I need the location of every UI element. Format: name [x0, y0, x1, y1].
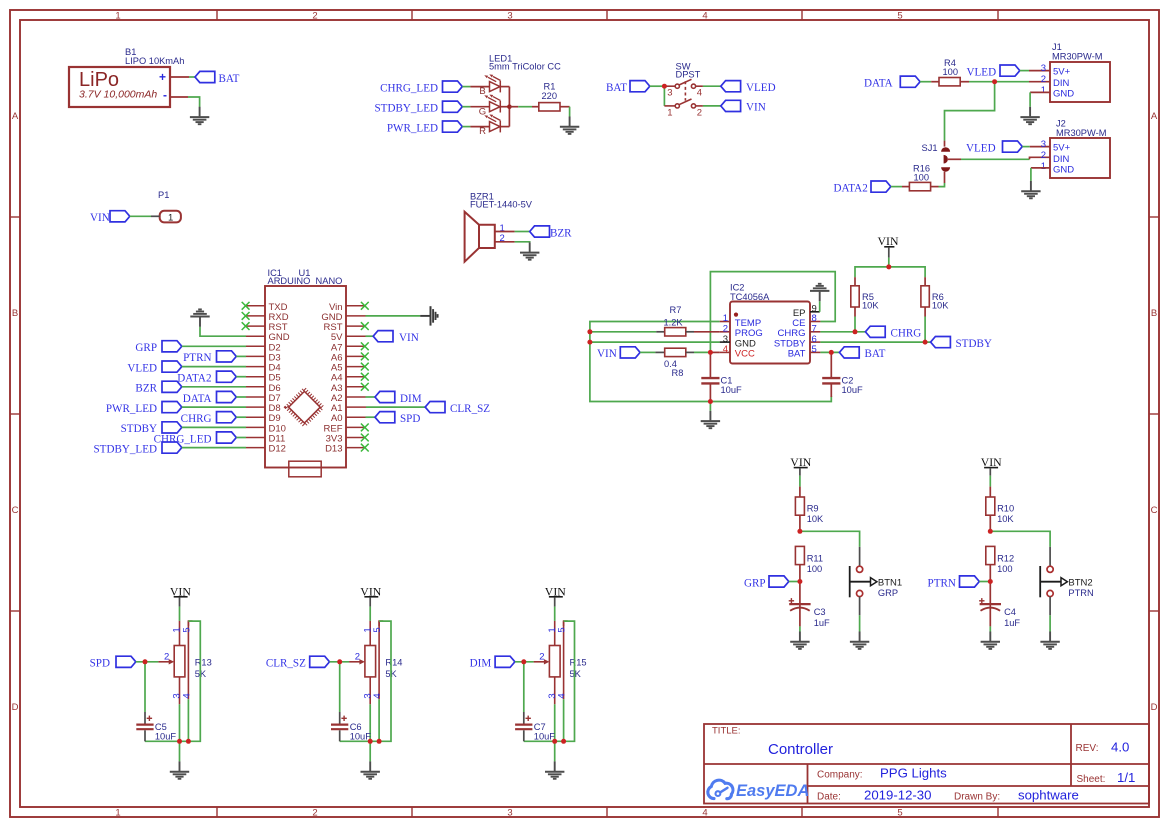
svg-text:5V+: 5V+ — [1053, 67, 1071, 78]
svg-text:5mm TriColor CC: 5mm TriColor CC — [489, 62, 561, 72]
junction CLR_SZ/C6 — [337, 659, 342, 664]
svg-text:PWR_LED: PWR_LED — [106, 403, 157, 415]
svg-text:3: 3 — [1041, 63, 1046, 74]
svg-text:VLED: VLED — [967, 66, 997, 78]
no-connect X A7 — [361, 342, 369, 350]
svg-text:C1: C1 — [721, 376, 733, 386]
svg-text:BTN2: BTN2 — [1068, 577, 1092, 588]
svg-text:VIN: VIN — [878, 234, 899, 248]
junction R10/R12 — [988, 529, 993, 534]
wire PTRN to D3 — [236, 355, 246, 357]
svg-text:Drawn By:: Drawn By: — [954, 792, 1000, 803]
ground (U1 left, inverted) — [190, 309, 209, 326]
svg-text:2019-12-30: 2019-12-30 — [864, 788, 931, 803]
junction VCC/C1 — [708, 350, 713, 355]
svg-text:Controller: Controller — [768, 741, 833, 758]
net flag VLED (SW) — [721, 81, 741, 92]
no-connect X 3V3 — [361, 434, 369, 442]
LED1 diode R — [484, 114, 500, 132]
svg-text:1: 1 — [115, 11, 120, 22]
U1 right pin names — [321, 302, 343, 455]
wire pin2 to VIN — [703, 105, 721, 107]
junction rail GND — [587, 340, 592, 345]
ground (C4) — [981, 632, 1000, 649]
wire BAT row — [820, 351, 839, 353]
junction DATA/DIN — [992, 79, 997, 84]
svg-text:100: 100 — [997, 564, 1013, 574]
svg-text:5: 5 — [897, 808, 902, 819]
U1 USB connector rect — [289, 461, 321, 477]
wire STDBY_LED to LED green anode — [462, 106, 470, 108]
wire CHRG_LED to D11 — [236, 437, 246, 439]
svg-text:SPD: SPD — [90, 658, 110, 670]
junction CHRG/R5 — [853, 329, 858, 334]
svg-text:DIN: DIN — [1053, 78, 1070, 89]
wire CHRG_LED to LED blue anode — [462, 86, 470, 88]
svg-text:D: D — [12, 702, 19, 713]
junction PTRN/C4 — [988, 579, 993, 584]
frame row letters right — [1151, 111, 1158, 713]
wire DATA2 to R16 — [891, 186, 902, 188]
svg-text:2: 2 — [1041, 74, 1046, 85]
wire R13 to ground — [179, 741, 181, 761]
wire GND J2 to ground — [1031, 167, 1050, 169]
svg-text:J1: J1 — [1052, 42, 1062, 52]
wire GND row — [590, 341, 720, 343]
wire rail to ground — [709, 402, 711, 411]
net flag DIM — [375, 391, 395, 402]
capacitor C7 — [523, 662, 525, 712]
svg-text:BAT: BAT — [219, 73, 240, 85]
resistor R12 — [986, 546, 995, 564]
junction rail PROG — [587, 329, 592, 334]
no-connect X A3 — [361, 383, 369, 391]
junction R13 pin3 bottom — [177, 739, 182, 744]
svg-text:GRP: GRP — [135, 342, 157, 354]
svg-text:1uF: 1uF — [1004, 618, 1020, 628]
wire CHRG to D9 — [236, 416, 246, 418]
svg-text:GRP: GRP — [878, 588, 898, 598]
svg-text:C3: C3 — [814, 607, 826, 617]
wire EP to ground — [819, 301, 821, 312]
net flag VIN (SW) — [721, 100, 741, 111]
U1 right pin stubs — [346, 306, 366, 448]
svg-text:3: 3 — [507, 808, 512, 819]
junction SPD/C5 — [143, 659, 148, 664]
svg-text:D: D — [1151, 702, 1158, 713]
pushbutton BTN2 — [1040, 566, 1067, 597]
no-connect X RST right — [361, 322, 369, 330]
wire DATA to D7 — [236, 396, 246, 398]
svg-text:100: 100 — [807, 564, 823, 574]
svg-text:5: 5 — [372, 627, 383, 632]
net flag VIN (U1 5V) — [373, 331, 393, 342]
svg-text:IC2: IC2 — [730, 283, 744, 293]
resistor R9 — [795, 497, 804, 515]
svg-text:PPG Lights: PPG Lights — [880, 766, 947, 781]
svg-text:10uF: 10uF — [842, 385, 864, 395]
svg-text:2: 2 — [1041, 150, 1046, 161]
potentiometer R14 — [349, 621, 383, 704]
title block grid — [704, 724, 1149, 804]
svg-text:VIN: VIN — [597, 348, 617, 360]
frame right ticks — [1149, 217, 1159, 611]
svg-text:4: 4 — [723, 344, 728, 355]
junction STDBY/R6 — [923, 340, 928, 345]
wire VIN to P1 — [130, 215, 151, 217]
wire STDBY to D10 — [182, 426, 246, 428]
U1 left pin names — [269, 302, 290, 455]
potentiometer R15 — [534, 621, 568, 704]
net flag BZR (buzzer) — [530, 226, 550, 237]
svg-text:DIN: DIN — [1053, 154, 1070, 165]
wire STDBY_LED to D12 — [182, 447, 246, 449]
no-connect X A4 — [361, 373, 369, 381]
no-connect X TXD — [242, 302, 250, 310]
svg-text:sophtware: sophtware — [1018, 788, 1079, 803]
ground (U1 right, rotated) — [420, 306, 437, 325]
capacitor C5 — [144, 662, 146, 712]
wire R16 to SJ1 bottom — [931, 186, 939, 188]
wire BZR1 pin2 to ground — [495, 241, 515, 243]
resistor R6 — [924, 277, 926, 286]
wire R15 loop pin5 to bottom — [524, 621, 575, 741]
svg-text:R10: R10 — [997, 504, 1014, 514]
wire R13 loop pin5 to bottom — [145, 621, 200, 741]
svg-text:DATA: DATA — [864, 78, 893, 90]
wire CLR_SZ to wiper — [330, 661, 350, 663]
svg-text:10K: 10K — [932, 301, 949, 311]
no-connect X A5 — [361, 363, 369, 371]
wire R15 to ground — [554, 741, 556, 761]
junction R13 pin4 bottom — [186, 739, 191, 744]
wire CHRG row — [820, 331, 865, 333]
junction VIN T — [886, 264, 891, 269]
U1 QFP chip diamond — [286, 389, 322, 425]
no-connect X D13 — [361, 444, 369, 452]
net flag CLR_SZ — [425, 402, 445, 413]
svg-text:R7: R7 — [670, 305, 682, 315]
svg-text:Sheet:: Sheet: — [1077, 774, 1106, 785]
switch pole A (pins 3-4) — [664, 79, 703, 88]
wire VLED to 5V+ J2 — [1022, 146, 1030, 148]
svg-text:MR30PW-M: MR30PW-M — [1056, 128, 1106, 138]
junction R15 pin3 bottom — [552, 739, 557, 744]
battery B1 — [69, 47, 184, 107]
wire 5V to VIN flag — [366, 335, 374, 337]
svg-text:STDBY_LED: STDBY_LED — [375, 102, 438, 114]
capacitor C4 — [989, 582, 991, 627]
ground (IC2 rail) — [701, 411, 720, 428]
wire BZR to D6 — [182, 386, 246, 388]
wire left rail / bottom rail — [590, 322, 831, 402]
svg-text:4: 4 — [372, 693, 383, 698]
ground (EP, inverted) — [810, 284, 829, 301]
resistor R5 — [854, 277, 856, 286]
wire BTN1 to ground — [859, 597, 861, 616]
svg-text:ARDUINO_NANO: ARDUINO_NANO — [268, 276, 343, 286]
wire junction down to pin1 — [663, 86, 665, 106]
no-connect X RXD — [242, 312, 250, 320]
svg-text:2: 2 — [164, 652, 169, 663]
svg-text:R14: R14 — [385, 657, 402, 667]
svg-text:2: 2 — [355, 652, 360, 663]
svg-text:C4: C4 — [1004, 607, 1016, 617]
svg-text:R1: R1 — [544, 82, 556, 92]
svg-text:R13: R13 — [195, 657, 212, 667]
wire DATA to R4 — [920, 81, 931, 83]
net flag SPD (U1) — [375, 412, 395, 423]
wire C3 to ground — [799, 626, 801, 631]
wire junction to SJ1 top — [945, 82, 995, 141]
svg-text:10uF: 10uF — [350, 732, 372, 742]
frame left ticks — [10, 217, 20, 611]
ground (BZR1) — [520, 242, 539, 259]
IC2 right pin stubs — [810, 311, 820, 313]
no-connect X RST left — [242, 322, 250, 330]
svg-text:TC4056A: TC4056A — [730, 292, 770, 302]
svg-text:CLR_SZ: CLR_SZ — [266, 658, 306, 670]
wire PWR_LED to D8 — [182, 406, 246, 408]
wire DATA2 to D5 — [236, 376, 246, 378]
IC U1 ARDUINO_NANO body — [265, 286, 346, 468]
svg-text:VIN: VIN — [90, 212, 110, 224]
svg-text:5: 5 — [897, 11, 902, 22]
resistor R10 — [986, 497, 995, 515]
ground (BTN1) — [850, 632, 869, 649]
wire C4 to ground — [989, 626, 991, 631]
svg-text:2: 2 — [312, 11, 317, 22]
frame column numbers bottom — [115, 808, 902, 819]
svg-text:2: 2 — [539, 652, 544, 663]
svg-text:BTN1: BTN1 — [878, 577, 902, 588]
svg-text:VLED: VLED — [746, 82, 776, 94]
svg-text:5: 5 — [557, 627, 568, 632]
svg-text:10uF: 10uF — [534, 732, 556, 742]
svg-text:EasyEDA: EasyEDA — [736, 782, 809, 800]
junction R9/R11 — [797, 529, 802, 534]
frame column numbers top — [115, 11, 902, 22]
no-connect X REF — [361, 424, 369, 432]
wire R14 to ground — [369, 741, 371, 761]
svg-text:4: 4 — [557, 693, 568, 698]
svg-text:BAT: BAT — [865, 348, 886, 360]
svg-text:J2: J2 — [1056, 119, 1066, 129]
svg-text:R15: R15 — [570, 657, 587, 667]
svg-text:R12: R12 — [997, 554, 1014, 564]
svg-text:VLED: VLED — [127, 362, 157, 374]
ground (R14) — [361, 761, 380, 778]
junction R15 pin4 bottom — [561, 739, 566, 744]
svg-text:STDBY: STDBY — [956, 338, 992, 350]
svg-text:1uF: 1uF — [814, 618, 830, 628]
capacitor C3 — [799, 582, 801, 627]
svg-text:DIM: DIM — [470, 658, 492, 670]
svg-text:4.0: 4.0 — [1111, 740, 1129, 755]
wire U1 GND left to ground — [200, 327, 246, 336]
junction GRP/C3 — [797, 579, 802, 584]
net flag STDBY (IC2) — [931, 337, 951, 348]
svg-text:100: 100 — [943, 67, 959, 77]
U1 left pin stubs — [246, 306, 265, 448]
svg-text:VLED: VLED — [966, 143, 996, 155]
svg-text:PWR_LED: PWR_LED — [387, 122, 438, 134]
svg-text:VIN: VIN — [399, 332, 419, 344]
svg-text:STDBY_LED: STDBY_LED — [94, 443, 157, 455]
svg-text:4: 4 — [697, 88, 702, 99]
wire junction to BTN2 — [990, 531, 1050, 547]
ground (R15) — [545, 761, 564, 778]
wire CE top loop — [710, 272, 835, 353]
potentiometer R13 — [158, 621, 192, 704]
svg-text:P1: P1 — [158, 190, 169, 200]
wire BTN2 to ground — [1049, 597, 1051, 616]
svg-text:R8: R8 — [672, 368, 684, 378]
capacitor C1 — [709, 352, 711, 377]
resistor R11 — [795, 546, 804, 564]
no-connect X A6 — [361, 353, 369, 361]
svg-text:PTRN: PTRN — [928, 577, 956, 589]
wire pin4 to VLED — [703, 85, 721, 87]
EasyEDA logo — [708, 780, 733, 799]
wire BZR1 pin1 to BZR flag — [495, 231, 515, 233]
wire DIM to wiper — [515, 661, 534, 663]
wire junction to BTN1 — [800, 531, 860, 547]
junction C1 bottom — [708, 399, 713, 404]
resistor R8 — [640, 351, 655, 353]
svg-text:B: B — [1151, 308, 1157, 319]
wire GND J1 to ground — [1030, 91, 1050, 93]
svg-text:1: 1 — [1041, 85, 1046, 96]
ground (C3) — [790, 632, 809, 649]
wire PROG row — [590, 331, 656, 333]
svg-text:2: 2 — [697, 107, 702, 118]
svg-text:CLR_SZ: CLR_SZ — [450, 403, 490, 415]
junction R14 pin3 bottom — [368, 739, 373, 744]
svg-text:GND: GND — [1053, 165, 1074, 176]
frame row letters left — [12, 111, 19, 713]
svg-text:STDBY: STDBY — [121, 423, 157, 435]
wire U1 GND right to ground — [366, 315, 421, 317]
wire BAT to junction — [650, 85, 665, 87]
svg-text:A: A — [1151, 111, 1158, 122]
IC2 pin1 marker dot — [734, 313, 738, 317]
frame bottom ticks — [217, 807, 998, 817]
svg-text:10K: 10K — [862, 301, 879, 311]
svg-text:+: + — [159, 70, 166, 84]
svg-text:SJ1: SJ1 — [922, 143, 938, 153]
svg-text:1: 1 — [168, 213, 173, 224]
svg-text:LIPO 10KmAh: LIPO 10KmAh — [125, 56, 184, 66]
svg-text:VIN: VIN — [746, 102, 766, 114]
wire B1- to ground — [170, 96, 188, 98]
buzzer BZR1 speaker symbol — [465, 212, 495, 262]
svg-text:C: C — [12, 505, 19, 516]
wire VLED to 5V+ J1 — [1020, 70, 1029, 72]
svg-text:1: 1 — [667, 107, 672, 118]
svg-text:PTRN: PTRN — [1068, 588, 1093, 598]
svg-text:TITLE:: TITLE: — [712, 726, 741, 737]
svg-text:220: 220 — [542, 91, 558, 101]
net flag CHRG (IC2) — [865, 326, 885, 337]
svg-text:D13: D13 — [325, 444, 342, 455]
svg-text:DIM: DIM — [400, 393, 422, 405]
svg-text:GND: GND — [1053, 89, 1074, 100]
svg-text:DATA2: DATA2 — [177, 373, 211, 385]
svg-text:CHRG: CHRG — [181, 413, 212, 425]
svg-text:1/1: 1/1 — [1117, 770, 1135, 785]
svg-text:100: 100 — [914, 173, 930, 183]
svg-text:4: 4 — [702, 11, 707, 22]
svg-text:VCC: VCC — [735, 349, 755, 360]
junction SW pin3 — [662, 84, 667, 89]
wire SJ1 mid to DIN J2 — [948, 158, 961, 160]
svg-text:3: 3 — [507, 11, 512, 22]
junction R14 pin4 bottom — [377, 739, 382, 744]
wire B1+ to BAT — [170, 76, 189, 78]
ground (R13) — [170, 761, 189, 778]
svg-text:3: 3 — [667, 88, 672, 99]
svg-text:SPD: SPD — [400, 413, 420, 425]
junction DIM/C7 — [521, 659, 526, 664]
net flag BAT — [195, 71, 215, 82]
ground (J2) — [1021, 181, 1040, 198]
svg-text:5: 5 — [812, 344, 817, 355]
svg-text:10uF: 10uF — [155, 732, 177, 742]
wire GRP to D2 — [182, 345, 246, 347]
svg-text:4: 4 — [702, 808, 707, 819]
no-connect X Vin — [361, 302, 369, 310]
svg-text:R: R — [479, 126, 486, 137]
svg-text:CHRG: CHRG — [891, 328, 922, 340]
svg-text:2: 2 — [312, 808, 317, 819]
junction BAT/C2 — [829, 350, 834, 355]
wire R4 to DIN J1 — [960, 81, 969, 83]
svg-text:5: 5 — [182, 627, 193, 632]
LED1 common cathode bus wire — [500, 87, 509, 127]
wire STDBY row — [820, 341, 930, 343]
wire PWR_LED to LED red anode — [462, 126, 470, 128]
wire R1 to ground — [560, 106, 570, 108]
svg-text:CHRG_LED: CHRG_LED — [380, 82, 438, 94]
svg-text:C2: C2 — [842, 376, 854, 386]
capacitor C6 — [339, 662, 341, 712]
ground (BTN2) — [1040, 632, 1059, 649]
svg-text:1: 1 — [1041, 161, 1046, 172]
LED1 diode G — [484, 95, 500, 113]
svg-text:DATA: DATA — [183, 393, 212, 405]
svg-text:3.7V 10,000mAh: 3.7V 10,000mAh — [79, 89, 157, 101]
wire LED common to R1 — [509, 106, 518, 108]
ground (R1) — [560, 117, 579, 134]
frame top ticks — [217, 10, 998, 20]
svg-text:1: 1 — [115, 808, 120, 819]
svg-text:10K: 10K — [807, 514, 824, 524]
svg-text:4: 4 — [182, 693, 193, 698]
svg-text:BAT: BAT — [788, 349, 806, 360]
svg-text:BZR: BZR — [135, 383, 157, 395]
wire SPD to wiper — [136, 661, 159, 663]
svg-text:C: C — [1151, 505, 1158, 516]
switch pole B (pins 1-2) — [664, 99, 703, 108]
svg-text:5K: 5K — [570, 669, 582, 679]
svg-text:Company:: Company: — [817, 770, 863, 781]
ground GND1 — [190, 107, 209, 124]
net flag BAT (IC2) — [839, 347, 859, 358]
svg-text:DATA2: DATA2 — [834, 182, 868, 194]
wire A2 to DIM flag — [366, 396, 376, 398]
IC2 left pin stubs — [720, 321, 730, 323]
